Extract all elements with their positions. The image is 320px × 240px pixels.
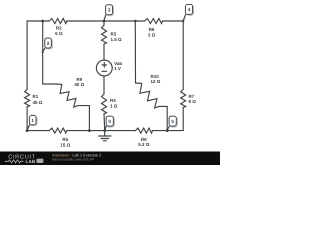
svg-text:2: 2 <box>47 41 50 46</box>
wire R10 branch vertical <box>134 21 136 83</box>
svg-text:rosamson : Lab 1 Exercise 2: rosamson : Lab 1 Exercise 2 <box>52 152 101 157</box>
svg-text:http://circuitlab.com/c/67u7f4: http://circuitlab.com/c/67u7f4 <box>52 158 94 162</box>
wire left branch <box>26 21 28 131</box>
svg-text:R5: R5 <box>62 137 68 142</box>
svg-text:8 Ω: 8 Ω <box>189 99 197 104</box>
resistor R1 <box>25 89 30 107</box>
label R2 value <box>55 26 63 36</box>
wire R9 top lead <box>43 83 56 85</box>
wire R3 to Vab <box>103 44 105 60</box>
label Vab value <box>114 61 122 71</box>
svg-text:R8: R8 <box>141 137 147 142</box>
svg-text:LAB: LAB <box>26 159 36 164</box>
junction node 5 <box>166 129 169 132</box>
resistor R3 <box>102 25 107 44</box>
svg-text:12 Ω: 12 Ω <box>151 79 161 84</box>
svg-text:45 Ω: 45 Ω <box>33 100 43 105</box>
wire top rail <box>27 20 183 22</box>
footer bar <box>0 152 220 166</box>
svg-text:6 Ω: 6 Ω <box>55 31 63 36</box>
node 2 <box>43 38 53 52</box>
junction node 4 corner <box>182 20 184 22</box>
label R9 value <box>74 77 84 87</box>
svg-text:R2: R2 <box>56 26 62 31</box>
svg-text:R1: R1 <box>33 94 39 99</box>
wire bottom rail <box>27 130 183 132</box>
junction node 2 attach <box>42 51 44 53</box>
node 4 <box>183 4 193 20</box>
junction node 1 corner <box>26 129 29 132</box>
label R4 value <box>110 98 118 108</box>
resistor R8 <box>136 128 153 133</box>
label R8 value <box>138 137 150 147</box>
label R6 value <box>148 27 156 37</box>
junction R10 branch <box>134 20 137 23</box>
svg-text:3: 3 <box>108 8 111 13</box>
svg-text:1.5 Ω: 1.5 Ω <box>111 37 123 42</box>
svg-text:5: 5 <box>171 119 174 124</box>
label R5 value <box>60 137 70 147</box>
footer logo CIRCUIT <box>8 155 36 161</box>
svg-text:15 Ω: 15 Ω <box>60 142 70 147</box>
junction ground node 0 <box>103 129 106 132</box>
svg-text:5.2 Ω: 5.2 Ω <box>138 142 150 147</box>
resistor R5 <box>49 128 67 133</box>
wire R10 bottom lead <box>159 106 167 130</box>
resistor R10 <box>136 83 159 108</box>
junction top-left of node 2 stub <box>41 20 44 23</box>
junction R9 bottom <box>88 129 91 132</box>
svg-text:40 Ω: 40 Ω <box>74 82 84 87</box>
node 5 <box>167 116 177 130</box>
junction node 3 <box>103 20 106 23</box>
svg-text:R6: R6 <box>149 27 155 32</box>
wire R9 bottom lead <box>78 106 90 131</box>
wire R4 to bottom rail <box>103 114 106 131</box>
svg-text:1 V: 1 V <box>114 66 121 71</box>
wire right branch <box>182 21 184 131</box>
label R10 value <box>151 74 161 84</box>
footer logo LAB <box>26 159 44 165</box>
resistor R4 <box>102 94 107 114</box>
footer credit line <box>52 152 101 157</box>
node 0 <box>105 116 115 130</box>
voltage source Vab <box>96 60 112 76</box>
resistor R7 <box>181 89 186 107</box>
wire middle branch upper <box>103 21 105 25</box>
svg-text:1: 1 <box>31 118 34 123</box>
footer logo resistor squiggle <box>5 160 24 163</box>
svg-text:3 Ω: 3 Ω <box>148 33 156 38</box>
wire Vab to R4 <box>103 76 105 94</box>
svg-text:1 Ω: 1 Ω <box>110 103 118 108</box>
svg-text:R3: R3 <box>111 31 117 36</box>
label R7 value <box>189 94 197 104</box>
ground <box>99 131 111 141</box>
label R3 value <box>111 31 123 42</box>
resistor R9 <box>56 84 78 107</box>
resistor R2 <box>49 19 67 24</box>
svg-text:0: 0 <box>108 119 111 124</box>
wire node2 stub <box>42 21 44 84</box>
svg-text:4: 4 <box>188 7 191 12</box>
resistor R6 <box>145 19 163 24</box>
label R1 value <box>33 94 43 105</box>
node 1 <box>27 115 37 130</box>
node 3 <box>104 5 114 21</box>
footer url line <box>52 158 94 162</box>
